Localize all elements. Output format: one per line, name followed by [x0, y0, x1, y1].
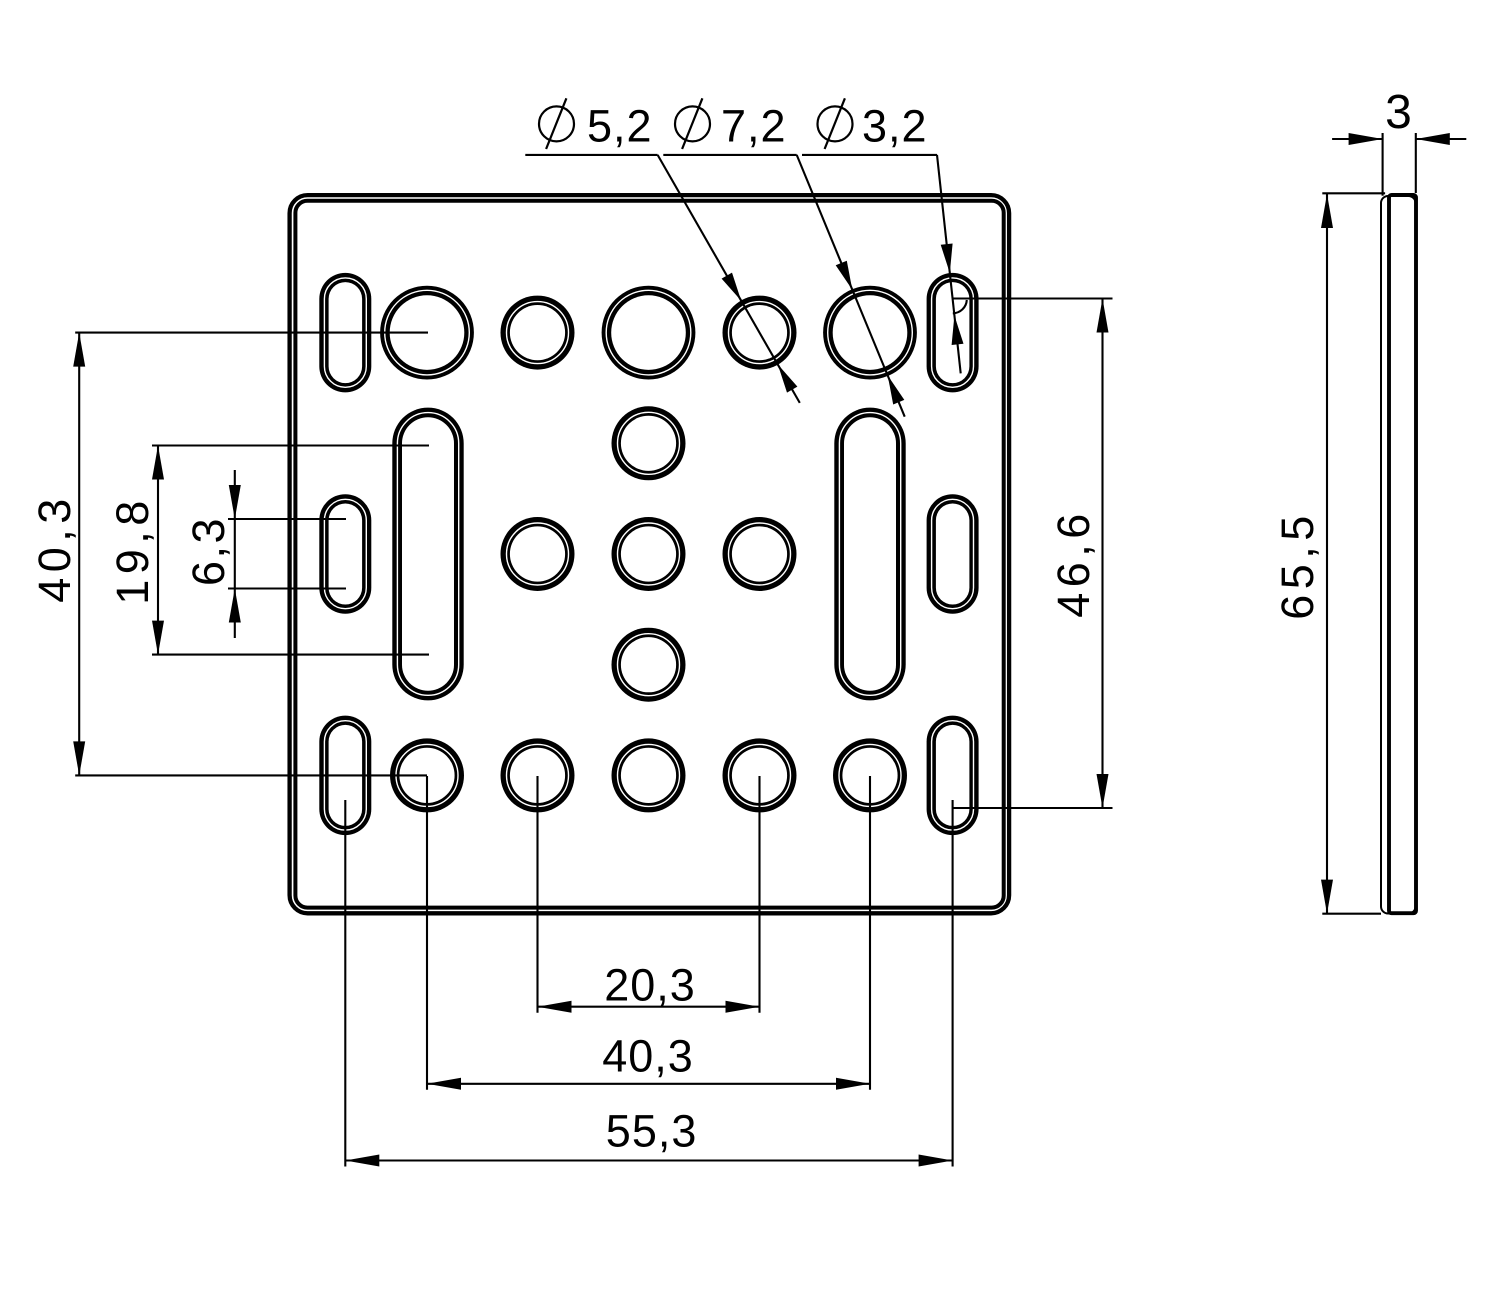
svg-text:19,8: 19,8: [107, 495, 158, 605]
svg-text:65,5: 65,5: [1272, 510, 1323, 620]
svg-text:7,2: 7,2: [721, 101, 787, 152]
svg-text:40,3: 40,3: [29, 493, 80, 603]
svg-text:55,3: 55,3: [606, 1106, 698, 1157]
svg-text:46,6: 46,6: [1048, 508, 1099, 618]
svg-text:40,3: 40,3: [602, 1031, 694, 1082]
svg-text:3: 3: [1385, 86, 1413, 139]
svg-text:5,2: 5,2: [587, 101, 653, 152]
svg-text:3,2: 3,2: [862, 101, 928, 152]
svg-text:6,3: 6,3: [183, 516, 234, 586]
svg-text:20,3: 20,3: [604, 960, 696, 1011]
